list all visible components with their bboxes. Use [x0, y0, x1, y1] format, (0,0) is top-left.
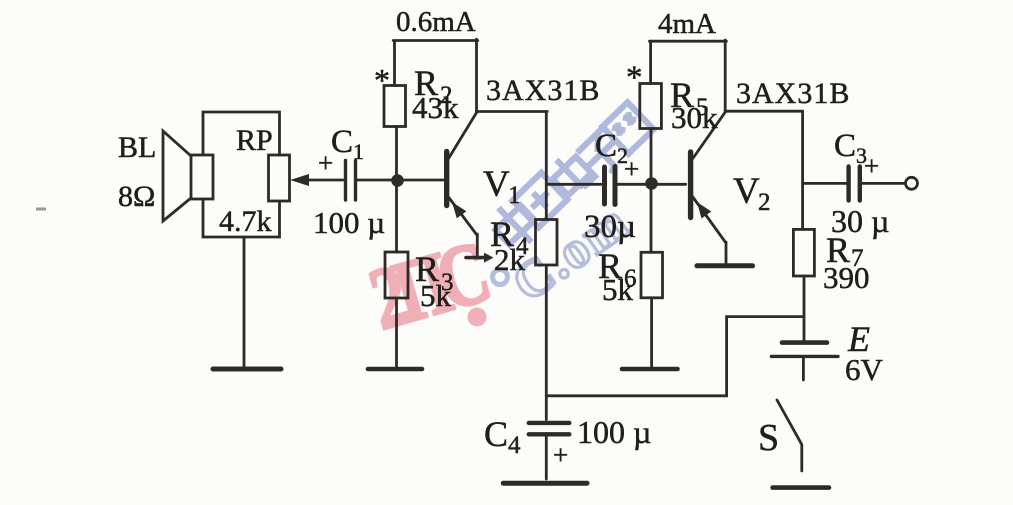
svg-text:100 µ: 100 µ	[313, 205, 385, 240]
svg-text:30k: 30k	[671, 100, 718, 135]
svg-text:V: V	[483, 164, 510, 205]
svg-text:+: +	[864, 151, 879, 181]
svg-text:3AX31B: 3AX31B	[486, 74, 600, 107]
svg-text:4.7k: 4.7k	[219, 205, 272, 238]
svg-text:*: *	[626, 60, 643, 96]
svg-text:+: +	[624, 154, 639, 184]
svg-text:C: C	[331, 124, 353, 160]
svg-text:1: 1	[508, 182, 521, 209]
svg-text:C: C	[834, 128, 856, 164]
svg-text:2: 2	[758, 189, 771, 216]
svg-text:30µ: 30µ	[584, 209, 636, 245]
svg-text:4: 4	[508, 432, 521, 459]
svg-text:+: +	[318, 148, 333, 178]
svg-text:S: S	[758, 417, 779, 459]
svg-text:3AX31B: 3AX31B	[736, 77, 850, 110]
svg-text:6V: 6V	[845, 352, 884, 387]
svg-text:100 µ: 100 µ	[577, 414, 651, 450]
svg-text:5k: 5k	[602, 272, 634, 307]
svg-text:4mA: 4mA	[658, 8, 716, 40]
svg-text:2k: 2k	[494, 242, 526, 277]
svg-text:8Ω: 8Ω	[118, 180, 155, 213]
svg-text:1: 1	[353, 139, 364, 164]
svg-text:RP: RP	[236, 124, 273, 157]
svg-text:BL: BL	[118, 131, 156, 164]
svg-text:C: C	[484, 414, 508, 454]
svg-text:C: C	[595, 128, 617, 164]
svg-text:390: 390	[823, 260, 870, 295]
svg-text:V: V	[733, 171, 760, 212]
svg-text:*: *	[374, 62, 390, 98]
svg-text:43k: 43k	[412, 90, 459, 125]
svg-text:+: +	[553, 440, 568, 470]
svg-text:0.6mA: 0.6mA	[396, 6, 476, 38]
svg-text:5k: 5k	[420, 278, 452, 313]
